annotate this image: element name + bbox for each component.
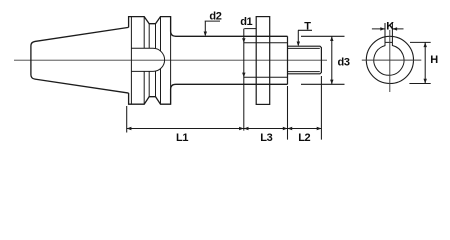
flange right face line [170, 17, 172, 105]
flange outline [129, 17, 288, 105]
arbor silhouette lines [244, 43, 288, 77]
dim K [372, 23, 404, 42]
svg-text:d2: d2 [209, 11, 221, 23]
end view inner circle with keyway [374, 42, 404, 75]
chain arrowheads [127, 127, 132, 130]
flange rib line a [143, 17, 145, 105]
dim d2 leader [205, 21, 220, 35]
disc (cutter) [256, 17, 270, 105]
thread minor lines [288, 48, 320, 71]
svg-text:d1: d1 [240, 16, 252, 28]
threaded stub [288, 46, 322, 74]
svg-text:K: K [386, 20, 394, 32]
taper shank outline [31, 27, 129, 93]
flange rib line c [155, 24, 157, 97]
dim T leader [298, 30, 312, 45]
end view outer circle [366, 36, 413, 83]
spacer bar [244, 28, 256, 30]
dim d3 [301, 36, 345, 84]
svg-text:H: H [430, 54, 438, 66]
flange face inner line [130, 17, 132, 105]
flange rib line b [148, 24, 150, 97]
svg-text:L1: L1 [176, 132, 188, 144]
capsule slot on flange [131, 48, 164, 71]
dim chain extension lines [127, 76, 322, 140]
body step face [287, 36, 289, 84]
dim d1 line [243, 29, 245, 131]
flange rib line d [160, 17, 162, 105]
dim chain line [127, 128, 322, 130]
svg-text:T: T [304, 21, 311, 33]
svg-text:L2: L2 [298, 132, 310, 144]
centerline main [14, 59, 327, 61]
end view centerlines [362, 30, 422, 92]
svg-text:d3: d3 [338, 57, 350, 69]
svg-text:L3: L3 [260, 132, 272, 144]
dim H [409, 42, 430, 83]
